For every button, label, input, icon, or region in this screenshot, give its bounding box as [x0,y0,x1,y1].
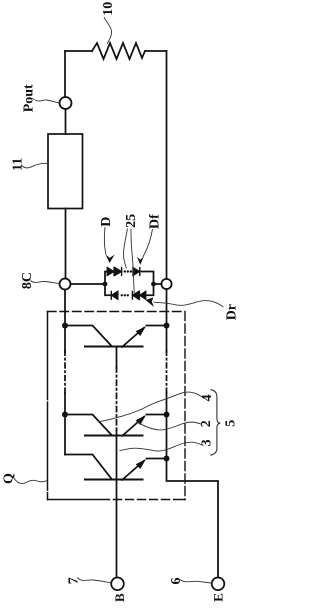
wire left rail t2 to t3 [64,415,66,455]
svg-text:Df: Df [147,214,162,229]
transistor 3 (middle cell) [62,412,170,480]
leader 11 [21,163,48,168]
terminal B circle [111,578,124,591]
svg-text:E: E [210,593,225,602]
svg-text:D: D [99,217,114,227]
wire top horizontal left segment [65,50,92,52]
wire collector lead t1 [65,326,112,347]
emitter lead t3 with arrow [122,461,144,480]
emitter lead t1 with arrow [122,328,144,347]
node left diode junction [103,282,108,287]
terminal circle on right rail [161,279,171,289]
wire collector lead t3 [65,455,112,480]
svg-text:B: B [112,593,127,602]
dashed box Q bottom edge [48,499,186,501]
wire right rail chain (omitted cells) [166,326,168,353]
base bar t3 [85,478,143,480]
dashed box Q left edge [47,312,49,500]
transistor 2 (top cell) [62,323,170,369]
node right diode junction [151,282,156,287]
svg-text:Q: Q [2,473,17,484]
leader Pout [33,98,60,103]
diode Df (top-right, pointing right) [133,268,140,276]
wire right rail upper [166,51,168,279]
svg-text:3: 3 [199,439,214,446]
arrowhead leader Dr [146,297,154,307]
leader lines (thin) [14,17,224,583]
wire collector lead t2 [65,415,112,436]
svg-text:4: 4 [200,395,215,402]
wire left rail upper [64,51,66,97]
text labels (rotated -90) [2,2,240,602]
leader 3 [120,442,203,451]
svg-text:8C: 8C [20,272,35,289]
diode D (top-left, pointing right) [107,268,114,276]
brace 5 [210,390,220,456]
wire Pout to box 11 [65,109,67,134]
leader Dr with arrow [154,300,224,307]
base bar t1 [85,345,143,347]
svg-text:2: 2 [199,420,214,427]
svg-text:Pout: Pout [22,84,37,112]
diode bottom-middle (pointing left) [132,291,138,299]
svg-text:10: 10 [101,2,116,16]
wire base lead t2 [116,430,118,480]
wire left rail chain (omitted cells) [64,326,66,353]
wire right rail t2 to t3 [166,415,168,459]
node collector dot t2 [62,412,68,418]
leader 10 [104,17,112,44]
leader 2 [137,422,203,430]
base bar t2 [85,434,143,436]
leader 7 [77,578,111,583]
transistor 4 (bottom cell) [65,455,170,481]
leader 8C [31,281,60,284]
leader Df with arrow [143,229,153,257]
emitter lead t2 with arrow [122,417,144,436]
node emitter dot t2 [164,412,170,418]
wire base line down to terminal B [116,480,118,578]
box 11 [48,134,83,209]
arrowheads for leaders [105,254,154,307]
wire diode node to terminal circle [156,283,162,285]
wire 8C to diode node [71,283,104,285]
leader 25 line a [124,229,128,269]
terminal E circle [212,578,225,591]
terminal 8C circle [60,279,71,290]
diode Dr (bottom-right, pointing left) [139,291,145,299]
wire diode top branch right [140,272,154,282]
diode second top (pointing right) [115,268,122,276]
svg-text:5: 5 [224,420,239,427]
leader 6 [180,580,211,584]
svg-text:6: 6 [169,578,184,585]
wire right rail circle to emitter dot [166,289,168,325]
resistor 10 zigzag [92,43,145,59]
ellipsis dots bottom diode chain [121,294,129,296]
wire emitter exit to terminal E [167,459,219,578]
svg-text:11: 11 [10,158,25,171]
wire diode top branch left [105,272,108,285]
dashed box Q right edge [184,312,186,500]
svg-text:Dr: Dr [224,304,239,320]
diode bottom-left (pointing left) [111,291,118,299]
wire box 11 to node 8C [65,209,67,279]
leader 25 line b [131,229,134,294]
arrowhead leader D [105,254,114,263]
ellipsis dots top diode chain 25 [124,270,132,272]
wire base lead t1 [116,347,118,369]
wire left rail 8C down to transistor Q collector [64,290,66,326]
leader Q [14,478,48,484]
wire diode bottom branch left [105,284,111,295]
svg-text:7: 7 [67,577,82,584]
wire base line chain (omitted cells) [116,367,118,430]
leader 4 [99,392,204,422]
wire top horizontal right segment [145,50,167,52]
terminal Pout circle [60,97,72,109]
arrowhead leader Df [137,257,144,265]
node emitter dot t3 [164,456,170,462]
node collector dot t1 [62,323,68,329]
node emitter dot t1 [164,323,170,329]
leader D with arrow [104,227,105,255]
svg-text:25: 25 [124,214,139,228]
dashed box Q top edge [48,311,186,313]
wire diode bottom branch right [146,287,154,296]
